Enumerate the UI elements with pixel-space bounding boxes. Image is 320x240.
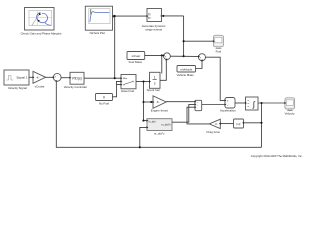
- wire: integrator to Velocity scope: [258, 102, 284, 104]
- svg-text:m_dot: m_dot: [148, 120, 155, 124]
- svg-text:No Fuel: No Fuel: [99, 101, 109, 105]
- sum junction (velocity error): [53, 73, 61, 81]
- svg-text:Signal 1: Signal 1: [16, 76, 27, 80]
- svg-text:Engine thrust: Engine thrust: [151, 108, 168, 112]
- sum: fuel remaining (sum A): [164, 53, 171, 61]
- wire: fuel rate tap down: [143, 82, 145, 121]
- wire: bottom feedback loop: [56, 82, 261, 148]
- wire: m_dot*v out to add port2: [172, 104, 194, 122]
- constant: No Fuel (0): [96, 94, 113, 101]
- wire: mVehicle to sum B bottom: [196, 61, 203, 68]
- gain: Engine thrust: [153, 96, 166, 109]
- arrowheads: [32, 15, 286, 129]
- integrator: velocity: [246, 97, 259, 110]
- svg-text:Velocity: Velocity: [285, 111, 296, 115]
- wire: tap to Nichols Plot input: [114, 15, 115, 17]
- wire: sum A to sum B: [170, 55, 198, 57]
- wire: branch to Fuel scope: [184, 40, 213, 42]
- subsystem: m_dot*v: [147, 119, 172, 131]
- wire: Acceleration to integrator: [235, 102, 245, 104]
- check block: Check Gain and Phase Margins: [25, 8, 55, 31]
- svg-text:-K-: -K-: [36, 75, 40, 79]
- svg-text:Fuel Mass: Fuel Mass: [129, 60, 143, 64]
- constant: Vehicle Mass (mVehicle): [177, 66, 196, 73]
- wire: PID to switch port1: [84, 77, 120, 79]
- svg-text:range events: range events: [145, 27, 162, 31]
- wire: tap up from PID output: [114, 16, 116, 78]
- gain: vCruise: [33, 71, 46, 83]
- wire: velocity to |u|^2 input: [244, 122, 261, 124]
- wire: No Fuel to switch port3: [113, 85, 121, 97]
- svg-text:m_dot*v: m_dot*v: [161, 123, 171, 127]
- PID controller: Velocity Controller: [70, 72, 84, 84]
- svg-text:Check Gain and Phase Margins: Check Gain and Phase Margins: [21, 31, 62, 35]
- scope: Velocity: [285, 98, 295, 111]
- subsystem: Generate dynamic range events: [147, 9, 162, 22]
- svg-text:vCruise: vCruise: [35, 85, 45, 89]
- svg-text:Nichols Plot: Nichols Plot: [90, 31, 105, 35]
- svg-text:Acceleration: Acceleration: [220, 109, 236, 113]
- svg-text:-K-: -K-: [215, 123, 219, 126]
- switch: Have Fuel: [121, 75, 136, 89]
- svg-text:Fuel: Fuel: [216, 50, 222, 54]
- wire: vCruise to sum: [46, 76, 53, 78]
- math block: |u|^2: [234, 119, 244, 128]
- wire: sum B out to Acceleration port1: [206, 57, 225, 100]
- svg-text:Vehicle Mass: Vehicle Mass: [177, 73, 195, 77]
- wire: |u|^2 to Drag force: [221, 123, 234, 125]
- wire: Drag force out to add port3: [187, 107, 209, 124]
- add block (force sum): [195, 100, 202, 110]
- wire: Generate block right side to mass line tap: [162, 15, 184, 17]
- svg-text:m_dot*v: m_dot*v: [154, 131, 165, 135]
- svg-text:Have Fuel: Have Fuel: [121, 89, 135, 93]
- source block: Velocity Signal (Signal 1): [4, 70, 29, 85]
- wire: tap arrow into m_dot port1: [144, 120, 147, 122]
- constant: Fuel Mass (mFuel): [127, 52, 145, 60]
- wire: Engine thrust to add port1: [166, 101, 194, 103]
- check block: Nichols Plot: [85, 6, 112, 30]
- svg-text:Copyright 2010-2023 The MathWo: Copyright 2010-2023 The MathWorks, Inc.: [251, 154, 303, 158]
- svg-text:-K-: -K-: [156, 100, 160, 104]
- wire: Spent fuel out to sum A bottom: [160, 60, 166, 80]
- svg-text:Velocity Signal: Velocity Signal: [8, 86, 27, 90]
- svg-text:mFuel: mFuel: [132, 54, 141, 58]
- svg-text:Velocity Controller: Velocity Controller: [64, 85, 87, 89]
- wire: loop branch to m_dot port2: [140, 127, 147, 147]
- wire: tap to Generate dynamic range events input: [115, 15, 147, 17]
- wire: switch out to Spent fuel: [136, 81, 149, 83]
- svg-text:|u|²: |u|²: [237, 122, 241, 126]
- wire: add out to Acceleration port2: [202, 104, 225, 106]
- svg-text:-: -: [57, 74, 58, 77]
- wire: tap to Engine thrust: [144, 101, 153, 103]
- wire: mFuel to sum A: [145, 54, 163, 56]
- svg-text:Spent fuel: Spent fuel: [147, 88, 160, 92]
- wire: signal to vCruise: [29, 76, 32, 78]
- svg-text:1: 1: [154, 76, 156, 80]
- sum: total mass (sum B): [199, 54, 206, 62]
- integrator: Spent fuel: [150, 72, 161, 88]
- divide block: Acceleration: [225, 98, 235, 109]
- port tick on Nichols Plot: [113, 15, 114, 18]
- svg-text:PID(s): PID(s): [72, 77, 82, 81]
- wire: mFuel tap down: [161, 55, 163, 73]
- wire: switch port2 stub: [116, 81, 120, 84]
- svg-text:Drag force: Drag force: [207, 130, 221, 134]
- wire: velocity tap down: [261, 103, 263, 147]
- scope: Fuel: [213, 35, 223, 48]
- wire: sum to PID: [61, 77, 69, 79]
- gain: Drag force (flipped): [209, 119, 220, 128]
- svg-text:mVehicle: mVehicle: [180, 67, 193, 71]
- svg-text:0: 0: [103, 96, 105, 100]
